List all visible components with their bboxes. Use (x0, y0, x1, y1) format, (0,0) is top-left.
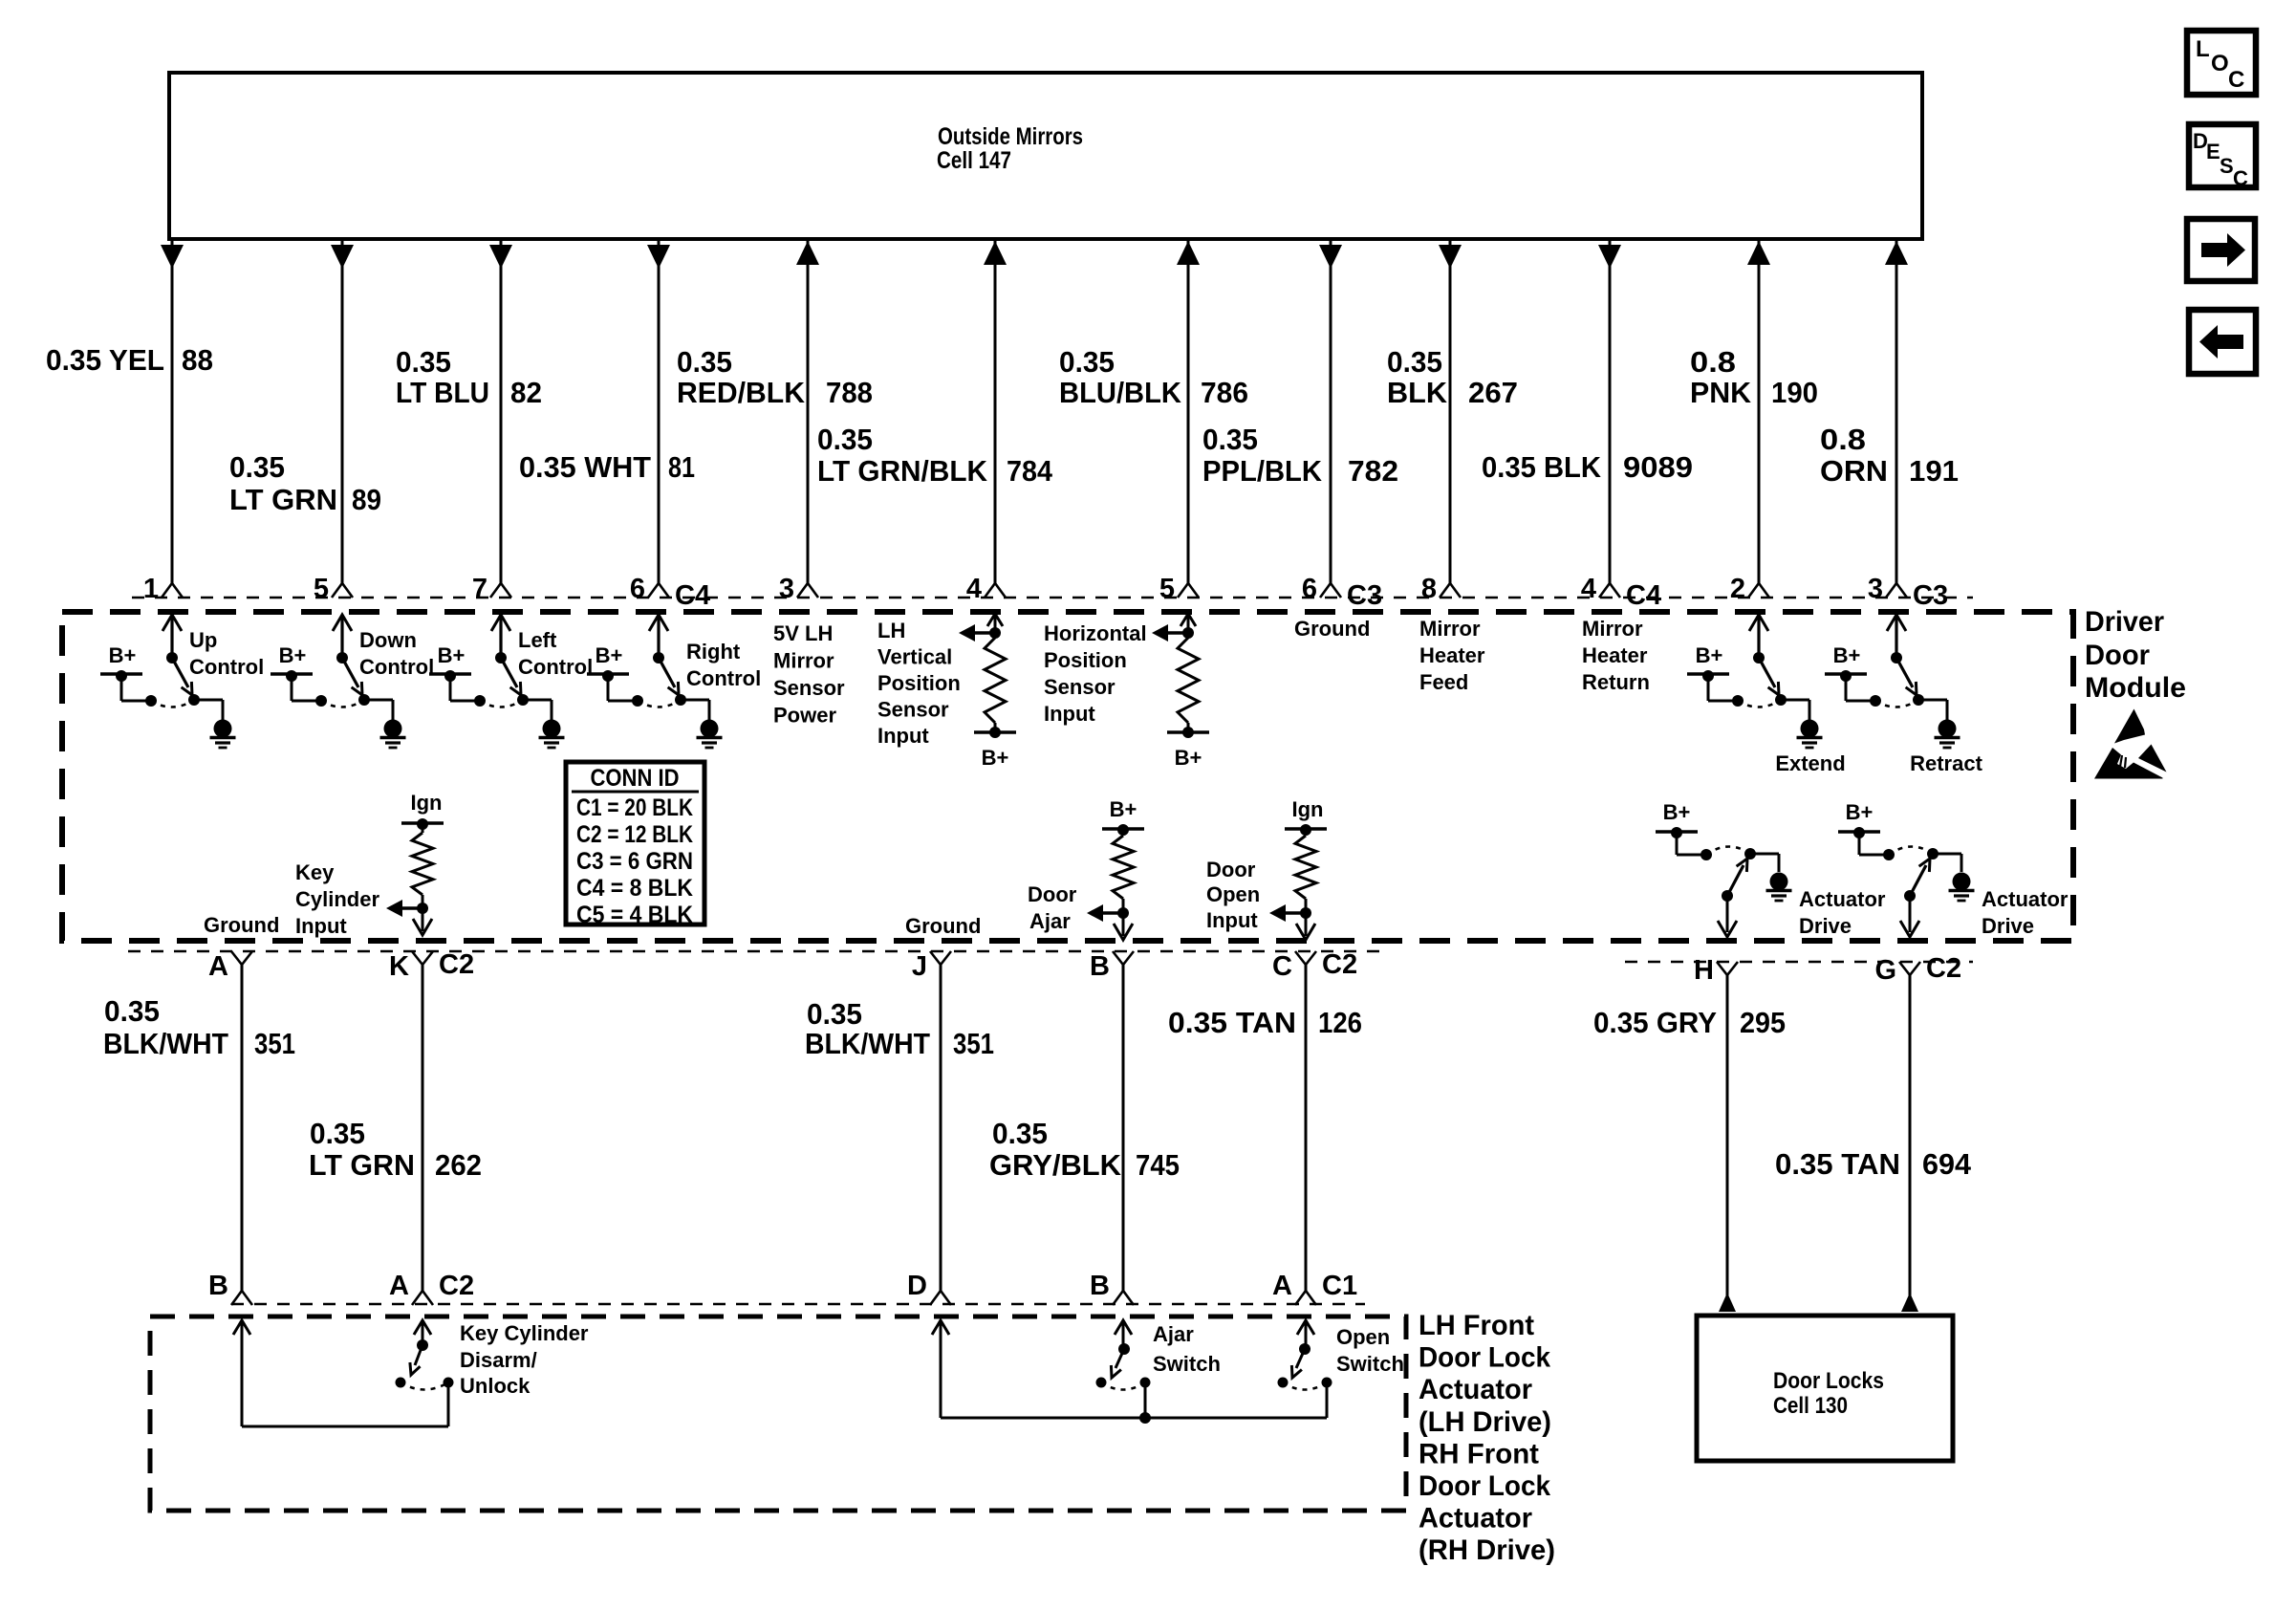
svg-text:Input: Input (1206, 908, 1258, 932)
svg-text:RED/BLK: RED/BLK (677, 376, 806, 409)
LOC icon box (2187, 31, 2256, 95)
svg-text:351: 351 (953, 1027, 994, 1060)
svg-text:C5 = 4 BLK: C5 = 4 BLK (576, 902, 693, 928)
svg-text:GRY/BLK: GRY/BLK (989, 1148, 1122, 1182)
svg-text:Key Cylinder: Key Cylinder (460, 1321, 589, 1345)
svg-text:Module: Module (2085, 672, 2186, 704)
label 0.35 RED/BLK 788 (677, 345, 873, 409)
lower connector pin B (1090, 1271, 1134, 1305)
module bottom pin B (1090, 951, 1134, 982)
wire GRY 295 (H to Door Locks) (1719, 975, 1736, 1312)
svg-text:Actuator: Actuator (1419, 1374, 1532, 1405)
svg-text:(RH Drive): (RH Drive) (1419, 1534, 1555, 1566)
svg-text:Right: Right (686, 640, 741, 664)
module bottom pin K C2 (389, 949, 474, 982)
svg-text:Ign: Ign (411, 791, 443, 815)
Door Locks box (Cell 130) (1697, 1316, 1953, 1461)
svg-text:B+: B+ (1175, 746, 1202, 770)
label 0.8 PNK 190 (1690, 345, 1818, 409)
svg-text:BLK: BLK (1387, 376, 1448, 409)
svg-text:O: O (2211, 51, 2229, 76)
svg-text:786: 786 (1201, 376, 1248, 409)
pin 6 label (top wire 8) (1302, 574, 1382, 611)
svg-text:784: 784 (1007, 454, 1053, 488)
svg-text:A: A (208, 951, 228, 982)
Actuator Drive switch inside module (1838, 800, 2069, 938)
svg-text:191: 191 (1909, 454, 1959, 488)
CONN ID table (566, 762, 704, 928)
pin 5 label (top wire 7) (1159, 574, 1175, 604)
label 0.35 TAN 126 (1168, 1006, 1362, 1039)
svg-text:Actuator: Actuator (1799, 887, 1886, 911)
svg-text:S: S (2220, 154, 2234, 178)
svg-text:C2: C2 (439, 1271, 474, 1301)
svg-text:LT BLU: LT BLU (396, 376, 489, 409)
svg-text:0.8: 0.8 (1820, 423, 1866, 456)
label 0.35 TAN 694 (1775, 1147, 1972, 1181)
svg-text:5: 5 (1159, 574, 1175, 604)
svg-text:Sensor: Sensor (877, 698, 949, 722)
label 0.35 WHT 81 (519, 450, 695, 484)
wire BLK/WHT 351 (J to D) (940, 965, 942, 1293)
svg-text:Door Locks: Door Locks (1773, 1368, 1884, 1394)
label 0.35 GRY/BLK 745 (989, 1117, 1180, 1182)
svg-text:126: 126 (1318, 1006, 1362, 1039)
module bottom pin G C2 (1874, 953, 1961, 986)
svg-text:Drive: Drive (1982, 914, 2034, 938)
svg-text:C: C (1272, 951, 1292, 982)
svg-text:BLU/BLK: BLU/BLK (1059, 376, 1182, 409)
LH Vertical Position Sensor Input label (877, 619, 961, 748)
svg-text:Left: Left (518, 628, 557, 652)
svg-text:7: 7 (472, 574, 487, 604)
lower connector pin A C2 (389, 1271, 474, 1305)
pin 3 label (top wire 12) (1868, 574, 1948, 611)
svg-text:Horizontal: Horizontal (1044, 621, 1147, 645)
lower connector pin D (907, 1271, 951, 1305)
svg-text:H: H (1694, 955, 1714, 986)
svg-text:BLK/WHT: BLK/WHT (805, 1027, 930, 1060)
Driver Door Module dashed box (62, 612, 2073, 941)
svg-text:Position: Position (1044, 648, 1127, 672)
svg-text:Ajar: Ajar (1153, 1322, 1194, 1346)
wire BLU/BLK 786 (pin 5) from Outside Mirrors box (1177, 241, 1200, 598)
label 0.35 BLK/WHT 351 (left) (103, 994, 295, 1060)
svg-text:Mirror: Mirror (1419, 617, 1481, 641)
svg-text:0.35 YEL: 0.35 YEL (46, 343, 164, 377)
svg-text:Control: Control (518, 655, 593, 679)
Door Open Input resistor with Ign pull-up (1269, 797, 1327, 940)
svg-text:0.35 TAN: 0.35 TAN (1775, 1147, 1900, 1181)
svg-text:Power: Power (773, 704, 836, 728)
svg-text:LT GRN: LT GRN (229, 483, 337, 516)
svg-text:0.35 GRY: 0.35 GRY (1593, 1006, 1717, 1039)
label 0.35 LT GRN 89 (229, 450, 381, 516)
svg-text:B+: B+ (109, 643, 137, 667)
svg-text:D: D (907, 1271, 927, 1301)
svg-text:C3: C3 (1913, 580, 1948, 611)
svg-text:5: 5 (314, 574, 329, 604)
svg-text:Ign: Ign (1292, 797, 1324, 821)
svg-text:Switch: Switch (1336, 1352, 1404, 1376)
svg-text:C2: C2 (1322, 949, 1357, 980)
svg-text:Retract: Retract (1910, 751, 1982, 775)
thin connector dashed line (module bottom pins, left) (128, 950, 1386, 952)
label 0.8 ORN 191 (1820, 423, 1959, 488)
svg-text:Ground: Ground (1294, 617, 1370, 641)
Ign pull-up resistor (key cylinder input) (386, 791, 444, 935)
svg-text:B+: B+ (1833, 643, 1861, 667)
svg-text:ORN: ORN (1820, 454, 1888, 488)
svg-text:Door: Door (1028, 882, 1077, 906)
wire BLK/WHT 351 (A to B) (241, 965, 244, 1293)
svg-text:B+: B+ (279, 643, 307, 667)
svg-text:Sensor: Sensor (1044, 675, 1116, 699)
pin 3 label (top wire 5) (779, 574, 794, 604)
svg-text:Input: Input (877, 724, 929, 748)
svg-text:295: 295 (1740, 1006, 1786, 1039)
svg-text:694: 694 (1922, 1147, 1972, 1181)
svg-text:Driver: Driver (2085, 606, 2164, 638)
wire LT BLU 82 (pin 7) from Outside Mirrors box (489, 241, 512, 598)
svg-text:745: 745 (1136, 1148, 1180, 1182)
svg-text:C2: C2 (439, 949, 474, 980)
svg-text:6: 6 (630, 574, 645, 604)
svg-text:Mirror: Mirror (1582, 617, 1643, 641)
svg-text:Cell 147: Cell 147 (937, 147, 1011, 174)
thin connector dashed line (module top pins) (132, 597, 1973, 598)
svg-text:B: B (208, 1271, 228, 1301)
Driver Door Module label (2085, 606, 2186, 704)
svg-text:B+: B+ (1663, 800, 1691, 824)
pin 6 label (top wire 4) (630, 574, 710, 611)
wire LT GRN 89 (pin 5) from Outside Mirrors box (331, 241, 354, 598)
svg-text:Cell 130: Cell 130 (1773, 1393, 1848, 1419)
Outside Mirrors box (Cell 147) (169, 73, 1922, 239)
Door Ajar resistor with B+ pull-up (1087, 797, 1144, 940)
svg-text:Heater: Heater (1582, 643, 1648, 667)
Door Ajar label (1028, 882, 1077, 933)
svg-text:Up: Up (189, 628, 217, 652)
svg-text:(LH Drive): (LH Drive) (1419, 1406, 1551, 1438)
wire PPL/BLK 782 (pin 6 C3) from Outside Mirrors box (1319, 241, 1342, 598)
svg-text:LH: LH (877, 619, 905, 642)
svg-text:3: 3 (1868, 574, 1883, 604)
svg-text:0.35: 0.35 (396, 345, 451, 379)
svg-text:9089: 9089 (1623, 450, 1693, 484)
wire ORN 191 (pin 3 C3) from Outside Mirrors box (1885, 241, 1908, 598)
wire YEL 88 (pin 1) from Outside Mirrors box (161, 241, 184, 598)
svg-text:A: A (1272, 1271, 1292, 1301)
svg-text:88: 88 (182, 343, 213, 377)
svg-text:Return: Return (1582, 670, 1650, 694)
svg-text:LH Front: LH Front (1419, 1310, 1534, 1341)
label 0.35 BLU/BLK 786 (1059, 345, 1248, 409)
svg-text:Control: Control (359, 655, 434, 679)
ESD sensitive device symbol (2094, 709, 2167, 779)
svg-text:Ground: Ground (204, 913, 279, 937)
svg-text:3: 3 (779, 574, 794, 604)
lower connector pin A C1 (1272, 1271, 1357, 1305)
Mirror Heater Feed label (pin 8) (1419, 617, 1485, 694)
svg-text:Door Lock: Door Lock (1419, 1470, 1550, 1502)
Right Control switch inside module (587, 615, 761, 748)
svg-text:6: 6 (1302, 574, 1317, 604)
label 0.35 YEL 88 (46, 343, 213, 377)
label 0.35 LT GRN 262 (309, 1117, 482, 1182)
svg-text:B: B (1090, 1271, 1110, 1301)
svg-text:190: 190 (1771, 376, 1818, 409)
label 0.35 BLK 267 (1387, 345, 1518, 409)
svg-text:Ajar: Ajar (1029, 909, 1071, 933)
pin 8 label (top wire 9) (1421, 574, 1437, 604)
wire WHT 81 (pin 6 C4) from Outside Mirrors box (647, 241, 670, 598)
svg-text:Drive: Drive (1799, 914, 1852, 938)
svg-text:Door: Door (2085, 640, 2150, 671)
svg-text:Cylinder: Cylinder (295, 887, 379, 911)
lower connector pin B (208, 1271, 252, 1305)
svg-text:Control: Control (189, 655, 264, 679)
svg-text:8: 8 (1421, 574, 1437, 604)
pin 5 label (top wire 2) (314, 574, 329, 604)
Key Cylinder Disarm/Unlock label (460, 1321, 589, 1398)
svg-text:0.35: 0.35 (229, 450, 285, 484)
svg-text:CONN ID: CONN ID (591, 765, 680, 792)
svg-text:782: 782 (1348, 454, 1398, 488)
svg-text:Key: Key (295, 860, 335, 884)
Key Cylinder Input label (295, 860, 379, 938)
Mirror Heater Return label (pin 4 C4) (1582, 617, 1650, 694)
svg-text:0.35: 0.35 (1059, 345, 1115, 379)
svg-text:G: G (1874, 955, 1896, 986)
svg-text:81: 81 (668, 450, 695, 484)
svg-text:Door Lock: Door Lock (1419, 1342, 1550, 1374)
wire RED/BLK 788 (pin 3) from Outside Mirrors box (796, 241, 819, 598)
svg-text:B+: B+ (1696, 643, 1723, 667)
label 0.35 PPL/BLK 782 (1202, 423, 1398, 488)
Horizontal Position Sensor Input label (1044, 621, 1147, 726)
pin 4 label (top wire 10) (1581, 574, 1661, 611)
pin 7 label (top wire 3) (472, 574, 487, 604)
svg-text:0.35: 0.35 (817, 423, 873, 456)
Down Control switch inside module (271, 615, 434, 748)
svg-text:C1: C1 (1322, 1271, 1357, 1301)
label 0.35 BLK/WHT 351 (middle) (805, 997, 994, 1060)
svg-text:Input: Input (1044, 702, 1095, 726)
label 0.35 GRY 295 (1593, 1006, 1786, 1039)
svg-text:C4 = 8 BLK: C4 = 8 BLK (576, 875, 693, 902)
svg-text:B+: B+ (596, 643, 623, 667)
svg-text:B: B (1090, 951, 1110, 982)
wire TAN 694 (G to Door Locks) (1901, 975, 1918, 1312)
svg-text:Vertical: Vertical (877, 645, 952, 669)
module bottom pin H (1694, 955, 1738, 986)
Actuator Drive switch inside module (1656, 800, 1886, 938)
svg-text:C4: C4 (1626, 580, 1661, 611)
svg-text:BLK/WHT: BLK/WHT (103, 1027, 228, 1060)
LH/RH Front Door Lock Actuator label (1419, 1310, 1555, 1566)
svg-text:B+: B+ (982, 746, 1009, 770)
door lock actuator dashed box (150, 1316, 1406, 1511)
svg-text:B+: B+ (1110, 797, 1137, 821)
svg-text:E: E (2206, 140, 2220, 163)
svg-text:Open: Open (1336, 1325, 1390, 1349)
svg-text:0.35: 0.35 (677, 345, 732, 379)
horizontal position sensor resistor (pin 5) (1152, 614, 1209, 770)
wire BLK 267 (pin 8) from Outside Mirrors box (1439, 241, 1462, 598)
svg-text:B+: B+ (438, 643, 466, 667)
svg-text:C: C (2228, 67, 2244, 93)
svg-text:C: C (2233, 166, 2248, 190)
Retract switch inside module (1825, 615, 1983, 775)
wire LT GRN 262 (K to A) (422, 965, 424, 1293)
svg-text:1: 1 (143, 574, 159, 604)
svg-text:0.35: 0.35 (807, 997, 862, 1031)
svg-text:LT GRN: LT GRN (309, 1148, 415, 1182)
Ajar Switch (932, 1320, 1327, 1424)
svg-text:0.35: 0.35 (992, 1117, 1048, 1150)
svg-text:Ground: Ground (905, 914, 981, 938)
module bottom pin J (912, 951, 951, 982)
svg-text:B+: B+ (1846, 800, 1874, 824)
svg-text:Outside Mirrors: Outside Mirrors (938, 123, 1083, 150)
svg-text:4: 4 (1581, 574, 1596, 604)
svg-text:2: 2 (1730, 574, 1745, 604)
right arrow icon box (2187, 219, 2255, 281)
svg-text:Input: Input (295, 914, 347, 938)
wire BLK 9089 (pin 4 C4) from Outside Mirrors box (1598, 241, 1621, 598)
Up Control switch inside module (100, 615, 264, 748)
svg-text:Actuator: Actuator (1982, 887, 2069, 911)
pin 4 label (top wire 6) (966, 574, 982, 604)
wire LT GRN/BLK 784 (pin 4) from Outside Mirrors box (984, 241, 1007, 598)
left arrow icon box (2189, 310, 2256, 374)
wire TAN 126 (C to A) (1305, 965, 1308, 1293)
DESC icon box (2189, 124, 2256, 190)
svg-text:0.35: 0.35 (1387, 345, 1442, 379)
svg-text:Switch: Switch (1153, 1352, 1221, 1376)
svg-text:0.35: 0.35 (1202, 423, 1258, 456)
vertical position sensor resistor (pin 4) (959, 614, 1016, 770)
svg-text:Extend: Extend (1775, 751, 1845, 775)
svg-text:Sensor: Sensor (773, 676, 845, 700)
label 0.35 BLK 9089 (1482, 450, 1693, 484)
Key Cylinder Disarm/Unlock switch (233, 1320, 454, 1426)
svg-text:A: A (389, 1271, 409, 1301)
svg-text:267: 267 (1468, 376, 1518, 409)
wire GRY/BLK 745 (B to B) (1122, 965, 1125, 1293)
wire PNK 190 (pin 2) from Outside Mirrors box (1747, 241, 1770, 598)
svg-text:LT GRN/BLK: LT GRN/BLK (817, 454, 988, 488)
svg-text:PNK: PNK (1690, 376, 1752, 409)
svg-text:0.8: 0.8 (1690, 345, 1736, 379)
svg-text:Open: Open (1206, 882, 1260, 906)
svg-text:C2: C2 (1926, 953, 1961, 984)
svg-text:K: K (389, 951, 409, 982)
svg-text:Actuator: Actuator (1419, 1503, 1532, 1534)
Ajar Switch label (1153, 1322, 1221, 1376)
svg-text:Feed: Feed (1419, 670, 1468, 694)
svg-text:C3 = 6 GRN: C3 = 6 GRN (576, 848, 693, 875)
svg-text:351: 351 (254, 1027, 295, 1060)
svg-text:89: 89 (352, 483, 381, 516)
label 0.35 LT BLU 82 (396, 345, 542, 409)
svg-text:C2 = 12 BLK: C2 = 12 BLK (576, 821, 693, 848)
svg-text:0.35 TAN: 0.35 TAN (1168, 1006, 1296, 1039)
svg-text:Disarm/: Disarm/ (460, 1348, 537, 1372)
svg-text:Heater: Heater (1419, 643, 1485, 667)
svg-text:PPL/BLK: PPL/BLK (1202, 454, 1323, 488)
svg-text:C3: C3 (1347, 580, 1382, 611)
svg-text:262: 262 (435, 1148, 482, 1182)
svg-text:C1 = 20 BLK: C1 = 20 BLK (576, 794, 693, 821)
pin 2 label (top wire 11) (1730, 574, 1745, 604)
svg-text:4: 4 (966, 574, 982, 604)
svg-text:Door: Door (1206, 858, 1256, 881)
svg-text:Unlock: Unlock (460, 1374, 531, 1398)
svg-text:L: L (2196, 36, 2210, 62)
svg-text:RH Front: RH Front (1419, 1438, 1539, 1469)
svg-text:Position: Position (877, 671, 961, 695)
svg-text:0.35: 0.35 (310, 1117, 365, 1150)
svg-text:82: 82 (510, 376, 542, 409)
pin 1 label (top wire 1) (143, 574, 159, 604)
Open Switch (1278, 1320, 1332, 1390)
svg-text:C4: C4 (675, 580, 710, 611)
Extend switch inside module (1687, 615, 1846, 775)
module bottom pin A (208, 951, 252, 982)
svg-text:Mirror: Mirror (773, 649, 834, 673)
svg-text:0.35 WHT: 0.35 WHT (519, 450, 651, 484)
thin connector dashed line (lower connector) (231, 1303, 1365, 1305)
svg-text:0.35: 0.35 (104, 994, 160, 1028)
module bottom pin C C2 (1272, 949, 1357, 982)
Door Open Input label (1206, 858, 1260, 932)
svg-text:J: J (912, 951, 927, 982)
5V LH Mirror Sensor Power label (773, 621, 845, 728)
svg-text:Control: Control (686, 666, 761, 690)
Open Switch label (1336, 1325, 1404, 1376)
thin connector dashed line (module bottom pins, right) (1625, 961, 1973, 963)
svg-text:Down: Down (359, 628, 417, 652)
Left Control switch inside module (429, 615, 593, 748)
svg-text:0.35 BLK: 0.35 BLK (1482, 450, 1602, 484)
svg-text:788: 788 (826, 376, 873, 409)
label 0.35 LT GRN/BLK 784 (817, 423, 1053, 488)
svg-text:5V LH: 5V LH (773, 621, 833, 645)
